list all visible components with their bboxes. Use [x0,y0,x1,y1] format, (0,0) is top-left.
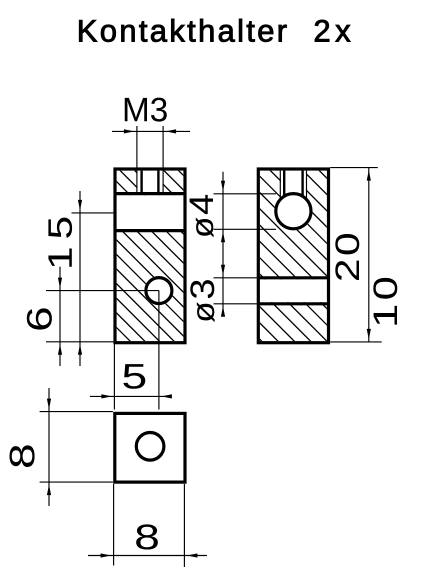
center line of ø3 hole (vertical) [158,291,160,410]
dimension 5 [90,344,172,410]
side view M3 thread slot [280,171,306,200]
dimension 8 (width of top view) [88,484,207,567]
title "Kontakthalter 2x" [79,19,350,42]
top view square outline [115,413,185,482]
front view hole clearances (white) [114,169,187,305]
front view hatching [0,163,357,349]
dimension 6 [27,267,114,366]
label 10 (second part height) [373,278,397,325]
dimension 20 [330,168,382,342]
dimension 8 (height of top view) [10,388,113,506]
side view outline [258,169,328,343]
front view ø3 hole [146,278,172,304]
dimension ø4 [190,172,276,317]
dimension ø3 [190,265,258,322]
dimension M3 [112,98,190,134]
center line of ø3 hole (horizontal) [46,290,159,292]
front view outline [115,169,185,343]
side view hole clearances (white) [257,169,330,302]
dimension 15 [48,191,113,366]
side view ø4 hole [276,194,311,229]
side view hatching [84,163,445,349]
top view M3 hole [136,433,164,461]
front view M3 thread slot [137,126,163,192]
